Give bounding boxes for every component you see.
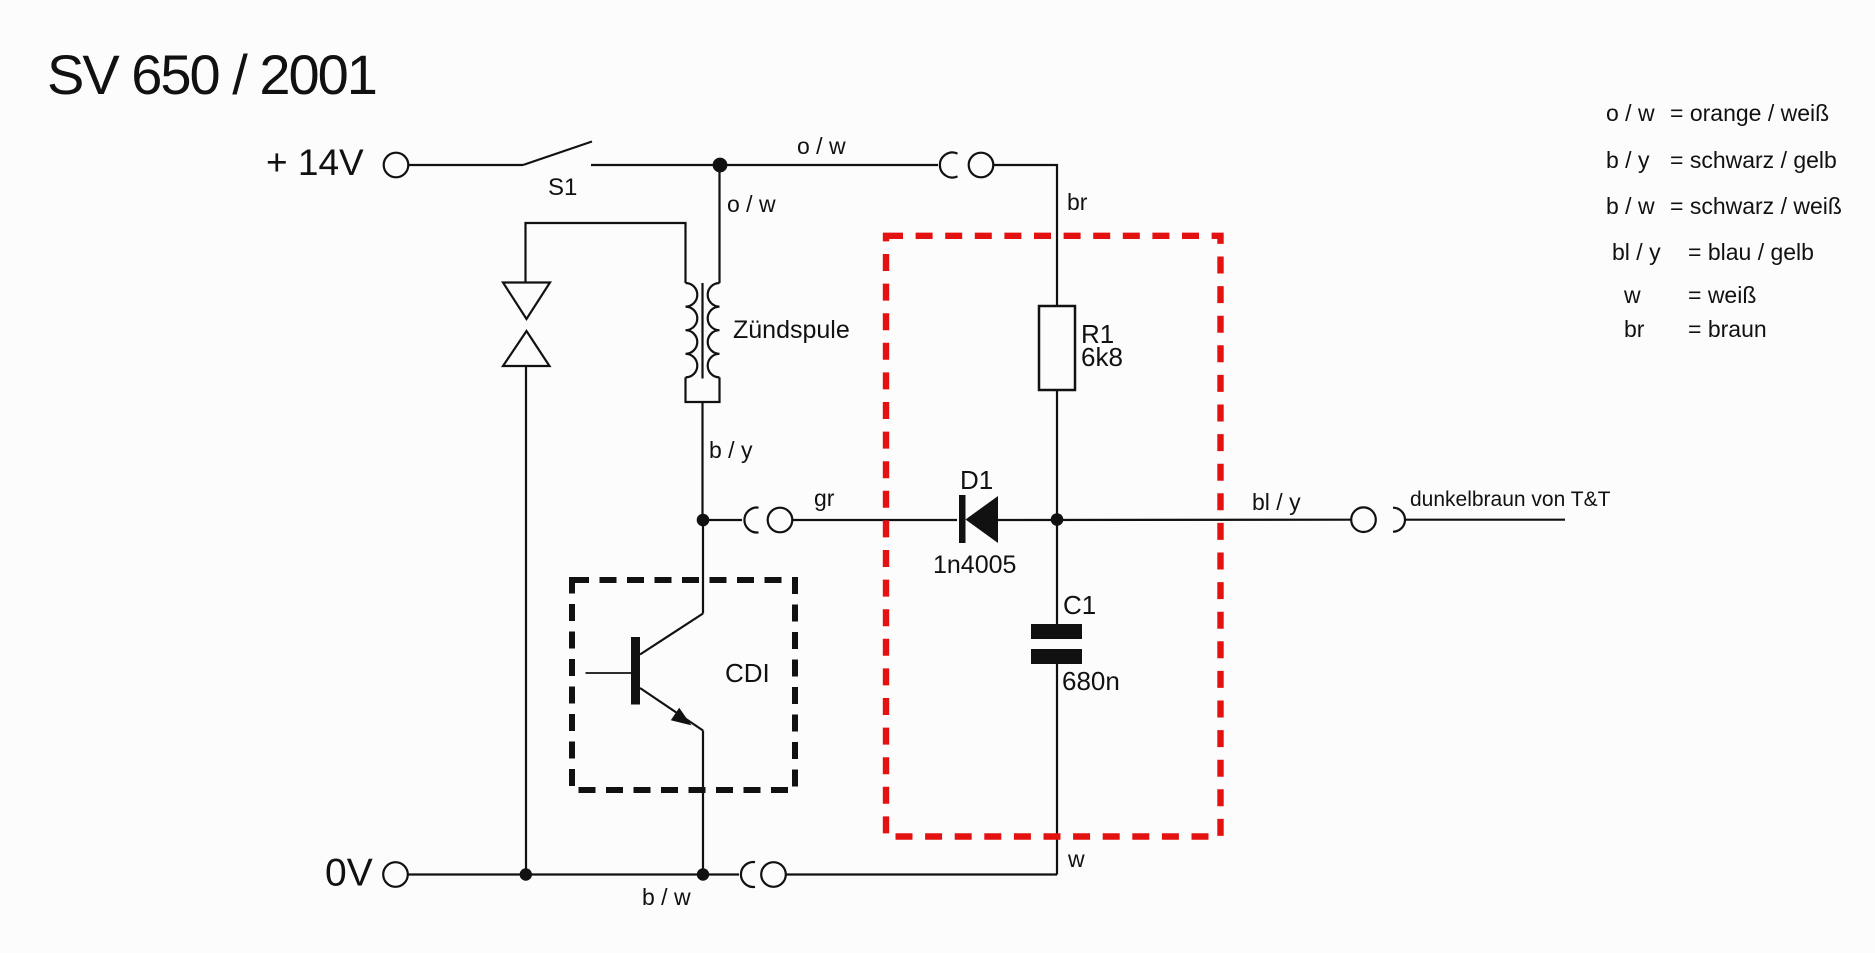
svg-text:= blau / gelb: = blau / gelb bbox=[1688, 239, 1814, 265]
connector half-shell bottom bbox=[741, 862, 755, 887]
svg-text:Zündspule: Zündspule bbox=[733, 316, 850, 344]
wire C1 to 0V rail corner bbox=[1056, 663, 1058, 875]
diode D1 cathode bar bbox=[959, 495, 966, 543]
wire R1 to node B bbox=[1056, 390, 1058, 520]
wire coil top-left branch bbox=[526, 223, 686, 283]
svg-text:b / w: b / w bbox=[642, 884, 691, 910]
wire emitter to 0V rail bbox=[702, 731, 704, 875]
node C junction dot (diode/R1/C1) bbox=[1051, 513, 1064, 526]
transistor base lead bbox=[586, 672, 632, 674]
transistor base bar bbox=[631, 637, 640, 705]
svg-text:= weiß: = weiß bbox=[1688, 282, 1756, 308]
wire connector to corner br bbox=[994, 165, 1058, 306]
capacitor C1 top plate bbox=[1031, 624, 1082, 639]
wire 0V rail left bbox=[408, 873, 739, 875]
node B junction dot bbox=[697, 514, 710, 527]
ignition coil base box bbox=[686, 377, 720, 402]
connector pin circle top bbox=[969, 153, 994, 178]
wire 0V rail right bbox=[786, 873, 1057, 875]
svg-text:C1: C1 bbox=[1063, 590, 1096, 620]
terminal bl/y bbox=[1351, 507, 1376, 532]
ignition coil right winding bbox=[708, 283, 720, 377]
svg-text:= braun: = braun bbox=[1688, 316, 1767, 342]
svg-text:S1: S1 bbox=[548, 174, 577, 201]
svg-text:0V: 0V bbox=[325, 852, 373, 895]
transistor emitter arrow bbox=[671, 708, 692, 726]
switch S1 blade bbox=[523, 142, 592, 166]
svg-text:b / w: b / w bbox=[1606, 193, 1655, 219]
svg-text:= schwarz / gelb: = schwarz / gelb bbox=[1670, 147, 1837, 173]
wire +14V to switch bbox=[409, 164, 524, 166]
spark gap upper triangle bbox=[503, 283, 550, 320]
transistor collector lead bbox=[640, 614, 703, 655]
ignition coil core bbox=[701, 283, 703, 379]
connector half-shell mid (gr) bbox=[744, 508, 758, 533]
diode D1 triangle bbox=[966, 496, 999, 543]
svg-text:br: br bbox=[1624, 316, 1645, 342]
svg-text:gr: gr bbox=[814, 485, 835, 511]
CDI dashed box bbox=[572, 580, 795, 790]
connector pin circle bottom bbox=[761, 862, 786, 887]
wire node B to gr connector bbox=[703, 519, 742, 521]
svg-text:= orange / weiß: = orange / weiß bbox=[1670, 100, 1829, 126]
terminal 0V bbox=[383, 862, 408, 887]
wire spark gap to 0V bbox=[525, 366, 527, 875]
terminal +14V bbox=[384, 153, 409, 178]
transistor emitter lead bbox=[640, 688, 703, 731]
svg-text:bl / y: bl / y bbox=[1612, 239, 1661, 265]
svg-text:br: br bbox=[1067, 189, 1088, 215]
junction dot 0V emitter bbox=[697, 868, 709, 880]
svg-text:b / y: b / y bbox=[709, 437, 753, 463]
capacitor C1 bottom plate bbox=[1031, 649, 1082, 664]
junction dot 0V spark gap bbox=[520, 868, 532, 880]
svg-text:o / w: o / w bbox=[797, 133, 846, 159]
wire node B to collector bbox=[702, 520, 704, 614]
svg-text:w: w bbox=[1067, 846, 1085, 872]
svg-text:bl / y: bl / y bbox=[1252, 489, 1301, 515]
wire gr connector to diode bbox=[792, 519, 957, 521]
svg-text:dunkelbraun von T&T: dunkelbraun von T&T bbox=[1410, 488, 1611, 511]
wire node B junction to C1 bbox=[1056, 520, 1058, 626]
svg-text:+ 14V: + 14V bbox=[266, 142, 364, 183]
svg-text:1n4005: 1n4005 bbox=[933, 551, 1016, 579]
connector pin circle mid (gr) bbox=[768, 508, 793, 533]
svg-text:o / w: o / w bbox=[1606, 100, 1655, 126]
resistor R1 bbox=[1039, 306, 1075, 390]
node A junction dot bbox=[713, 158, 728, 173]
svg-text:w: w bbox=[1623, 282, 1641, 308]
wire coil to node B bbox=[701, 402, 703, 520]
red dashed box (modification) bbox=[886, 236, 1221, 837]
svg-text:6k8: 6k8 bbox=[1081, 342, 1123, 372]
wire dunkelbraun bbox=[1405, 519, 1565, 521]
svg-text:CDI: CDI bbox=[725, 658, 770, 688]
svg-text:b / y: b / y bbox=[1606, 147, 1650, 173]
svg-text:o / w: o / w bbox=[727, 191, 776, 217]
spark gap lower triangle bbox=[503, 331, 550, 366]
svg-text:680n: 680n bbox=[1062, 666, 1120, 696]
ignition coil left winding bbox=[686, 283, 698, 377]
svg-text:= schwarz / weiß: = schwarz / weiß bbox=[1670, 193, 1842, 219]
svg-text:SV 650 / 2001: SV 650 / 2001 bbox=[47, 43, 376, 106]
wire diode to bl/y terminal bbox=[998, 519, 1351, 521]
connector half-shell right bbox=[1393, 508, 1405, 532]
wire switch to node A bbox=[591, 164, 938, 166]
connector half-shell top bbox=[940, 152, 958, 177]
svg-text:D1: D1 bbox=[960, 465, 993, 495]
wire node A down to coil bbox=[718, 165, 720, 283]
